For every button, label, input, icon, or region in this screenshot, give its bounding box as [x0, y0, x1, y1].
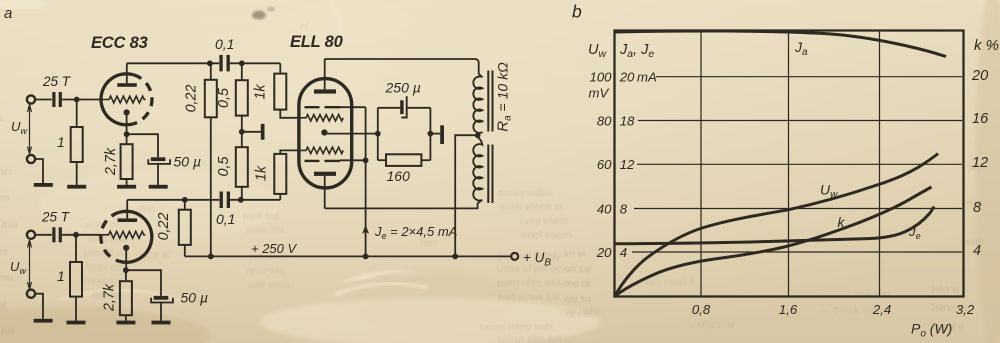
svg-text:0,22: 0,22 [184, 85, 200, 113]
svg-text:me nl: me nl [564, 278, 590, 290]
svg-text:18: 18 [620, 113, 635, 128]
input terminal T3 [27, 231, 35, 239]
node screen join [363, 157, 369, 163]
cathode dot V1 [124, 109, 130, 115]
svg-text:b: b [572, 2, 582, 22]
supply drop wire from R3 [210, 117, 212, 256]
svg-text:40: 40 [597, 201, 612, 216]
wire T4 to ground [35, 294, 43, 319]
svg-text:1: 1 [57, 268, 65, 284]
wire cathode V1 to C2 [127, 134, 158, 157]
node supply screen-line [363, 254, 369, 260]
capacitor C2 50u plate [151, 157, 166, 161]
curve k [615, 187, 932, 297]
gridline y row2 [638, 120, 962, 122]
output terminal +UB [511, 253, 518, 260]
svg-text:uso wnm: uso wnm [248, 279, 290, 291]
svg-text:uie wnm: uie wnm [0, 192, 9, 204]
svg-text:0,5: 0,5 [216, 157, 232, 177]
transformer core lines [488, 71, 492, 204]
lead C2 to ground [157, 165, 159, 186]
svg-text:jeto w: jeto w [931, 283, 960, 295]
svg-text:0,5: 0,5 [216, 88, 232, 108]
curve Ja [615, 31, 947, 57]
lead C5 to ground [160, 303, 162, 321]
svg-text:k: k [838, 214, 846, 230]
node centre tap [475, 133, 481, 139]
node rail R7 [238, 197, 244, 203]
capacitor C7 250u cup [401, 96, 406, 117]
svg-text:80: 80 [597, 113, 612, 128]
ground under C5 [152, 321, 171, 325]
svg-text:1: 1 [57, 134, 65, 150]
resistor R2 2,7k [126, 134, 128, 144]
node grid-leak common [239, 129, 245, 135]
anode bar V1 [117, 83, 137, 87]
svg-text:mmo ter: mmo ter [0, 166, 13, 178]
svg-text:0,8: 0,8 [692, 302, 711, 317]
ground under R1 [67, 185, 86, 189]
svg-text:mn: mn [140, 203, 155, 215]
svg-text:nwm olse wta: nwm olse wta [497, 277, 561, 289]
capacitor C7 250u plate [400, 100, 403, 114]
anode bar lower U1 [314, 172, 336, 176]
svg-text:Je = 2×4,5 mA: Je = 2×4,5 mA [374, 224, 457, 241]
ground bar network [430, 133, 440, 135]
resistor R10 0,22 lower [184, 200, 186, 210]
svg-text:lm w: lm w [564, 248, 586, 260]
grid zigzag V1 [100, 96, 145, 103]
wire C4 to grid V2 [62, 234, 100, 236]
cathode network frame [378, 108, 431, 160]
resistor R11 160 [378, 159, 386, 161]
svg-text:12: 12 [620, 157, 635, 172]
svg-text:1,6: 1,6 [779, 302, 798, 317]
cathode lead V1 [126, 115, 128, 134]
svg-text:wnel sowm: wnel sowm [519, 229, 572, 241]
svg-text:25 T: 25 T [42, 74, 72, 89]
node cathode V1 [124, 131, 130, 137]
ground under R2 [117, 185, 136, 189]
svg-text:nl: nl [300, 21, 308, 33]
cathode wire U1 to network [327, 133, 378, 135]
svg-text:0,22: 0,22 [156, 213, 172, 241]
svg-text:wu so: wu so [563, 293, 592, 305]
svg-text:12: 12 [972, 155, 988, 171]
screen feed line [365, 107, 367, 256]
svg-text:20 mA: 20 mA [619, 70, 657, 85]
screen dashes lower U1 [305, 160, 341, 162]
node grid V1 [74, 97, 80, 103]
svg-text:a: a [4, 5, 12, 22]
triode V2 ECC83b envelope solid right [120, 211, 152, 262]
svg-text:3,2: 3,2 [956, 302, 975, 317]
grid zigzag lower U1 [299, 147, 343, 153]
curve Uw [615, 154, 939, 297]
anode wire lower to transformer [325, 203, 478, 208]
curve Je [615, 207, 935, 244]
ground under C2 [149, 185, 168, 189]
svg-text:1k: 1k [254, 165, 270, 181]
gridline x 1,6 [788, 32, 790, 296]
gridline y row3 [637, 163, 962, 165]
svg-text:ECC 83: ECC 83 [91, 34, 148, 52]
svg-text:0,1: 0,1 [216, 211, 235, 227]
cathode lead V2 [125, 251, 127, 271]
wire C1 to grid V1 [62, 99, 100, 101]
svg-text:on sw: on sw [564, 263, 592, 275]
svg-text:2,4: 2,4 [872, 302, 891, 317]
svg-text:owu nne: owu nne [0, 246, 8, 258]
capacitor C3 0,1 upper [219, 55, 222, 72]
svg-text:nwe sol: nwe sol [243, 210, 279, 222]
svg-text:4: 4 [620, 245, 627, 260]
gridline y row5 [632, 251, 962, 253]
svg-text:mnr wal: mnr wal [0, 299, 7, 311]
gridline x 2,4 [879, 32, 881, 296]
svg-text:eniw solwn m: eniw solwn m [500, 201, 563, 213]
Uw arrow upper [28, 105, 32, 155]
grid zigzag upper U1 [299, 115, 343, 121]
capacitor C5 50u cup [151, 298, 173, 303]
svg-text:60: 60 [597, 157, 612, 172]
svg-text:25 T: 25 T [41, 210, 71, 225]
svg-text:wem ins: wem ins [245, 224, 285, 236]
screen wire upper exit [340, 106, 366, 108]
node grid V2 [73, 232, 79, 238]
svg-text:wm nsoe li: wm nsoe li [644, 276, 695, 288]
svg-text:4: 4 [973, 243, 981, 259]
svg-text:klm aa: klm aa [0, 112, 3, 124]
svg-text:snce mw: snce mw [0, 219, 18, 231]
node supply centre-tap [452, 254, 458, 260]
resistor R8 1 lower [75, 235, 77, 262]
svg-text:muter wdso: muter wdso [498, 187, 552, 199]
resistor R5 0,5 lower [241, 132, 243, 147]
svg-text:2,7k: 2,7k [103, 147, 119, 176]
ground mid (bar right) [242, 131, 261, 133]
svg-text:0,1: 0,1 [215, 36, 234, 52]
ground under T2 [34, 183, 53, 187]
anode lead upper U1 [324, 59, 326, 89]
svg-text:16: 16 [972, 111, 989, 127]
input terminal T2 [27, 155, 35, 163]
wire T1 to C1 [35, 99, 52, 101]
resistor R7 1k lower [279, 194, 281, 200]
anode lead V1 [126, 63, 128, 83]
svg-text:k %: k % [974, 37, 999, 54]
node network left [375, 131, 381, 137]
svg-text:mel wnua sni: mel wnua sni [498, 291, 559, 303]
anode wire upper to transformer [325, 59, 479, 74]
anode rail V2 [127, 199, 280, 201]
ground under R9 [116, 321, 135, 325]
transformer primary coil upper [473, 74, 482, 134]
svg-text:ELL 80: ELL 80 [290, 33, 344, 51]
svg-text:250 µ: 250 µ [385, 80, 421, 96]
svg-text:wnsa nw: wnsa nw [0, 325, 15, 337]
svg-text:mV: mV [589, 86, 610, 101]
node rail R4 [239, 60, 245, 66]
anode bar V2 [118, 218, 138, 222]
svg-text:160: 160 [387, 168, 411, 184]
node cathode V2 [123, 267, 129, 273]
triode V2 envelope dashed left [101, 212, 120, 261]
svg-text:wmsn elot wn: wmsn elot wn [496, 333, 561, 343]
svg-text:100: 100 [589, 70, 612, 85]
wire cathode V2 to C5 [126, 270, 161, 296]
capacitor C2 50u cup [148, 159, 170, 164]
svg-text:1k: 1k [253, 84, 269, 100]
resistor R4 0,5 upper [241, 63, 243, 80]
gridline y row4 [634, 208, 962, 210]
resistor R9 2,7k lower [125, 270, 127, 281]
svg-text:20: 20 [596, 245, 612, 260]
svg-text:50 µ: 50 µ [174, 154, 202, 170]
svg-text:50 µ: 50 µ [181, 290, 209, 306]
node network right [428, 131, 434, 137]
svg-text:+ 250 V: + 250 V [251, 241, 298, 256]
svg-text:nse wm: nse wm [855, 288, 891, 300]
input terminal T4 [27, 290, 35, 298]
resistor R1 1 [76, 100, 78, 128]
triode V1 ECC83a envelope solid left [101, 74, 133, 125]
wire T3 to C4 [35, 234, 52, 236]
node supply R3-drop [208, 254, 214, 260]
svg-text:nuto elwm: nuto elwm [520, 215, 568, 227]
svg-text:nme wls: nme wls [246, 265, 285, 277]
gridline y row1 [656, 76, 962, 78]
gridline x 0,8 [700, 32, 702, 296]
pentode U1 ELL80 envelope [299, 79, 352, 188]
screen wire lower exit [340, 159, 366, 161]
centre tap wire [455, 135, 478, 256]
cathode dot V2 [123, 245, 129, 251]
anode rail V1 [127, 62, 280, 64]
input terminal T1 [27, 95, 35, 103]
capacitor C6 0,1 lower [220, 192, 223, 209]
ground under T4 [34, 319, 53, 323]
anode lead V2 [126, 200, 128, 219]
anode bar upper U1 [314, 89, 336, 93]
capacitor C5 50u plate [154, 296, 169, 300]
node rail R3 [207, 60, 213, 66]
svg-text:neuw mleo swn: neuw mleo swn [480, 321, 553, 333]
wire T2 to ground [35, 159, 43, 183]
node rail R10 [182, 197, 188, 203]
capacitor C1 25T [52, 92, 55, 107]
resistor R3 0,22 upper [210, 63, 212, 80]
transformer primary coil lower [473, 137, 482, 203]
svg-text:8: 8 [973, 200, 981, 216]
supply rail +250V [185, 255, 511, 257]
screen dashes upper U1 [305, 106, 341, 108]
capacitor C4 25T lower [52, 227, 55, 242]
anode lead lower U1 [324, 176, 326, 209]
svg-text:8: 8 [620, 201, 628, 216]
svg-text:V 052 mw: V 052 mw [688, 319, 735, 331]
resistor R6 1k upper [279, 63, 281, 73]
ground under R8 [67, 321, 86, 325]
svg-text:nm el: nm el [566, 308, 592, 320]
cathode dot U1 [321, 129, 327, 135]
current arrow Je [362, 225, 369, 234]
graph frame [615, 31, 964, 297]
Uw arrow lower [28, 240, 32, 290]
grid zigzag V2 [100, 231, 145, 238]
svg-text:2,7k: 2,7k [102, 283, 118, 312]
triode V1 envelope dashed right [133, 75, 152, 124]
svg-text:20: 20 [971, 68, 988, 84]
